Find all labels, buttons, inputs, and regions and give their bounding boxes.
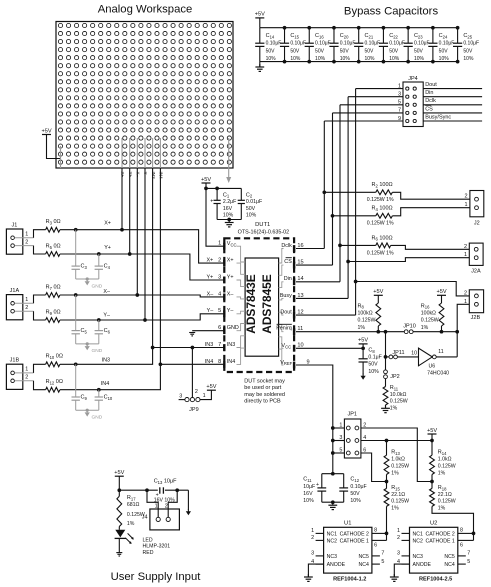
svg-text:8: 8: [374, 528, 377, 534]
svg-text:22.1Ω: 22.1Ω: [391, 492, 405, 498]
wire Y- net to DUT pin 5: [60, 314, 224, 322]
svg-text:0.125W 1%: 0.125W 1%: [367, 250, 394, 256]
svg-text:R14: R14: [438, 450, 447, 456]
IC U1 REF1004-1.2: [304, 520, 387, 582]
capacitor C22 0.10uF bypass: [379, 26, 405, 64]
wire JP4 pin3 to net bus: [348, 96, 403, 98]
svg-text:VREF: VREF: [280, 360, 292, 366]
LED HLMP-3201: [115, 530, 171, 556]
gray workspace columns for analog signals: [122, 138, 160, 168]
svg-text:Y+: Y+: [104, 245, 111, 251]
node IN4 label: [101, 381, 109, 387]
wire IN3 net to DUT pin 7: [60, 346, 224, 367]
wire Y- column drop: [144, 168, 146, 320]
svg-text:R12 0Ω: R12 0Ω: [46, 379, 63, 385]
svg-text:R10 0Ω: R10 0Ω: [46, 354, 63, 360]
svg-text:R4 100Ω: R4 100Ω: [372, 206, 393, 212]
svg-text:6: 6: [374, 543, 377, 549]
wire JP9 pin 1 to +5V: [200, 390, 211, 399]
svg-text:11: 11: [297, 326, 303, 332]
svg-text:C23: C23: [414, 33, 423, 39]
svg-text:1: 1: [25, 232, 28, 238]
svg-text:10: 10: [297, 343, 303, 349]
svg-text:J2: J2: [474, 221, 480, 227]
svg-text:1: 1: [464, 202, 467, 208]
wire JP4 pin5 to net bus: [340, 104, 403, 106]
svg-text:R11: R11: [390, 385, 399, 391]
svg-text:CATHODE 2: CATHODE 2: [340, 532, 369, 538]
resistor R14 1.0k: [430, 441, 456, 484]
wire IN3 column drop: [152, 168, 154, 348]
svg-text:50V: 50V: [315, 49, 325, 55]
svg-text:X–: X–: [136, 172, 141, 178]
capacitor C3 and C4 with ground: [72, 230, 111, 290]
svg-text:0.125W: 0.125W: [421, 318, 439, 324]
svg-text:C10: C10: [104, 395, 113, 401]
svg-text:Y+: Y+: [128, 172, 133, 178]
op-amp U6 inverter 74HC04: [411, 348, 449, 376]
svg-text:10%: 10%: [246, 213, 257, 219]
wire Dout branch to J2B pin 2: [356, 282, 470, 296]
svg-text:Bypass Capacitors: Bypass Capacitors: [344, 5, 439, 17]
svg-text:16V: 16V: [303, 491, 313, 497]
IC U2 REF1004-2.5: [390, 520, 474, 582]
svg-text:0.10μF: 0.10μF: [266, 41, 282, 47]
wire inverter output: [436, 356, 457, 358]
wire IN4 net to DUT pin 8: [60, 362, 224, 391]
svg-text:C22: C22: [389, 33, 398, 39]
+5V supply bypass rail: [255, 12, 265, 28]
svg-text:IN3: IN3: [151, 172, 156, 180]
svg-text:+: +: [210, 198, 213, 204]
svg-text:16: 16: [297, 243, 303, 249]
svg-text:50V: 50V: [266, 49, 276, 55]
svg-text:15: 15: [297, 260, 303, 266]
svg-text:14: 14: [297, 276, 303, 282]
connector J2: [464, 191, 483, 227]
svg-text:IN3: IN3: [227, 342, 235, 348]
svg-text:R7 0Ω: R7 0Ω: [46, 284, 61, 290]
svg-text:0.10μF: 0.10μF: [350, 484, 366, 490]
svg-text:2: 2: [25, 239, 28, 245]
wire IN3 to JP9 pin 2: [191, 348, 193, 398]
svg-text:R13: R13: [391, 450, 400, 456]
+5V user supply: [114, 470, 124, 490]
wire JP1 pin 6 to R13 R15 junction: [361, 453, 387, 482]
svg-text:0.01μF: 0.01μF: [246, 199, 262, 205]
svg-text:U2: U2: [430, 520, 437, 526]
wire Dout vertical bus to DUT pin 12: [296, 89, 357, 316]
jumper JP10: [403, 323, 416, 333]
svg-text:0.10μF: 0.10μF: [414, 41, 430, 47]
svg-text:CS: CS: [425, 106, 433, 112]
node X+ label: [104, 221, 111, 227]
svg-text:CATHODE 2: CATHODE 2: [425, 532, 454, 538]
svg-text:Y–: Y–: [143, 172, 148, 178]
wire Dclk vertical bus to DUT pin 16: [296, 121, 326, 249]
+5V at JP9: [206, 384, 216, 390]
jumper JP11: [389, 350, 405, 359]
capacitor C12 0.10uF: [339, 474, 366, 505]
ground R11: [381, 405, 390, 412]
wire Vref to C11 C12 rail: [322, 472, 344, 476]
resistor R2 100 ohm: [324, 182, 394, 203]
svg-text:R17: R17: [127, 495, 136, 501]
svg-text:0.125W: 0.125W: [438, 463, 456, 469]
connector JP4 pin contacts: [406, 87, 417, 123]
wire R2 to J2 pin 2: [392, 192, 470, 199]
svg-text:be used or part: be used or part: [244, 385, 281, 391]
svg-text:Y–: Y–: [103, 312, 110, 318]
capacitor C21 0.10uF bypass: [354, 26, 380, 64]
wire LED cathode to ground: [118, 538, 120, 552]
connector J2B: [464, 290, 484, 321]
svg-text:0.125W: 0.125W: [390, 399, 408, 405]
ground LED: [116, 553, 122, 556]
svg-text:R3 0Ω: R3 0Ω: [46, 219, 61, 225]
svg-text:8: 8: [460, 528, 463, 534]
svg-text:NC2: NC2: [327, 539, 337, 545]
wire JP1 pin 2 to R14 R18 junction: [361, 428, 432, 482]
wire Busy vertical bus to DUT pin 13: [296, 97, 350, 299]
DUT left pin numbers and names: [205, 241, 239, 365]
svg-text:R15: R15: [391, 485, 400, 491]
svg-text:1%: 1%: [127, 521, 135, 527]
svg-text:0.125W: 0.125W: [391, 463, 409, 469]
svg-text:1%: 1%: [390, 405, 398, 411]
wire JP4 pin1 to net bus: [356, 88, 403, 90]
+5V supply to workspace: [41, 128, 60, 168]
resistor R8 100k pullup: [358, 289, 384, 332]
jumper JP9: [179, 389, 206, 413]
node X- label: [103, 289, 110, 295]
svg-text:0.10μF: 0.10μF: [315, 41, 331, 47]
svg-text:1: 1: [464, 252, 467, 258]
resistor R10 0 ohm: [46, 354, 63, 367]
wire X- net to DUT pin 4: [60, 293, 224, 297]
wire C13 right to ground arrow: [165, 488, 189, 509]
ground bypass rail: [255, 62, 264, 72]
wire X- column drop: [136, 168, 138, 295]
title User Supply Input: [111, 571, 202, 583]
wire Y+ net to DUT pin 3: [60, 252, 224, 280]
svg-text:+5V: +5V: [373, 289, 383, 295]
svg-text:C3: C3: [81, 264, 88, 270]
analog workspace prototyping area border: [56, 22, 233, 169]
svg-text:Busy/Sync: Busy/Sync: [425, 114, 451, 120]
svg-text:0.10μF: 0.10μF: [365, 41, 381, 47]
connector JP1 outline: [344, 412, 361, 458]
wire X+ column drop: [121, 168, 123, 230]
svg-text:Dclk: Dclk: [425, 98, 436, 104]
svg-text:3: 3: [397, 551, 400, 557]
ground DUT pin 6: [189, 333, 195, 336]
svg-text:22.1Ω: 22.1Ω: [438, 492, 452, 498]
svg-text:0.125W: 0.125W: [391, 499, 409, 505]
resistor R5 0 ohm: [46, 243, 61, 256]
resistor R9 0 ohm: [46, 309, 61, 322]
svg-text:may be soldered: may be soldered: [244, 392, 285, 398]
svg-text:C8: C8: [368, 347, 375, 353]
svg-text:2: 2: [397, 535, 400, 541]
ground C1 C2: [217, 218, 241, 227]
svg-text:+5V: +5V: [114, 470, 124, 476]
wire JP4 pin7 to net bus: [333, 112, 404, 114]
svg-text:12: 12: [297, 310, 303, 316]
svg-text:74HC040: 74HC040: [427, 370, 449, 376]
svg-text:LED: LED: [143, 538, 153, 544]
resistor R12 0 ohm: [46, 379, 63, 392]
svg-text:J1: J1: [11, 222, 17, 228]
capacitor C14 0.10uF bypass: [255, 28, 281, 62]
svg-text:C1: C1: [223, 192, 230, 198]
svg-text:JP2: JP2: [390, 374, 399, 380]
svg-text:1%: 1%: [391, 506, 399, 512]
ground C8 arrow: [361, 374, 366, 380]
svg-text:3: 3: [311, 551, 314, 557]
svg-text:C4: C4: [104, 264, 111, 270]
JP4 output wires with net labels Dout Din Dclk CS Busy/Sync: [423, 82, 482, 121]
svg-text:Din: Din: [284, 276, 292, 282]
ground C11 C12: [322, 500, 344, 509]
svg-text:IN3: IN3: [102, 357, 110, 363]
svg-text:X+: X+: [227, 258, 234, 264]
svg-text:10μF: 10μF: [303, 484, 315, 490]
resistor R17 681 ohm: [117, 490, 145, 530]
connector J2A: [464, 243, 483, 274]
svg-text:X–: X–: [227, 291, 234, 297]
svg-text:7: 7: [381, 551, 384, 557]
svg-text:50V: 50V: [340, 49, 350, 55]
DUT socket pin tick marks: [223, 243, 295, 369]
gray socket-to-IC connection lines: [237, 246, 284, 365]
capacitor C2 0.01uF: [238, 188, 262, 219]
svg-text:1: 1: [155, 504, 158, 510]
svg-text:C24: C24: [439, 33, 448, 39]
svg-text:2: 2: [165, 504, 168, 510]
svg-text:R9 0Ω: R9 0Ω: [46, 309, 61, 315]
node Y- label: [103, 312, 110, 318]
svg-text:5: 5: [381, 559, 384, 565]
wire J4 pin 1: [147, 490, 158, 517]
svg-text:10%: 10%: [389, 56, 400, 62]
svg-text:X–: X–: [103, 289, 110, 295]
svg-text:Busy: Busy: [280, 293, 292, 299]
svg-text:J4: J4: [142, 515, 148, 521]
svg-text:C5: C5: [81, 328, 88, 334]
svg-text:Penirq: Penirq: [276, 326, 292, 332]
svg-text:J2B: J2B: [471, 315, 481, 321]
svg-text:1%: 1%: [438, 470, 446, 476]
svg-text:GND: GND: [92, 415, 103, 421]
resistor R11 10.0k pulldown: [383, 379, 408, 412]
svg-text:2.2μF: 2.2μF: [223, 199, 236, 205]
svg-text:0.10μF: 0.10μF: [340, 41, 356, 47]
svg-text:GND: GND: [92, 283, 103, 289]
svg-text:DUT1: DUT1: [255, 222, 270, 228]
ground user supply arrow: [186, 509, 191, 515]
svg-text:1: 1: [25, 367, 28, 373]
svg-text:Y–: Y–: [227, 308, 234, 314]
capacitor C20 0.10uF bypass: [329, 26, 355, 64]
svg-text:13: 13: [297, 293, 303, 299]
svg-text:J2A: J2A: [471, 268, 481, 274]
svg-text:2: 2: [25, 305, 28, 311]
capacitor C8 0.1uF: [359, 347, 382, 374]
svg-text:1%: 1%: [391, 470, 399, 476]
svg-text:1%: 1%: [421, 325, 429, 331]
svg-text:C14: C14: [266, 33, 275, 39]
svg-text:JP1: JP1: [347, 412, 356, 418]
svg-text:10%: 10%: [368, 369, 379, 375]
svg-text:0.10μF: 0.10μF: [463, 41, 479, 47]
svg-text:2: 2: [311, 535, 314, 541]
svg-text:C9: C9: [81, 395, 88, 401]
svg-text:10%: 10%: [315, 56, 326, 62]
svg-text:11: 11: [438, 349, 443, 355]
svg-text:50V: 50V: [389, 49, 399, 55]
svg-text:681Ω: 681Ω: [127, 502, 140, 508]
svg-text:U1: U1: [344, 520, 351, 526]
DUT right pin numbers and names: [276, 243, 309, 366]
svg-text:NC4: NC4: [444, 562, 454, 568]
wire CS vertical bus to DUT pin 15: [296, 113, 334, 265]
svg-text:2: 2: [464, 194, 467, 200]
resistor R16 100k pullup: [421, 289, 447, 332]
svg-text:REF1004-1.2: REF1004-1.2: [333, 577, 366, 583]
wire +5V gray column to DUT supply arrow: [226, 138, 231, 183]
capacitor C5 and C6 with ground: [72, 295, 111, 354]
svg-text:NC4: NC4: [359, 562, 369, 568]
svg-text:R5 0Ω: R5 0Ω: [46, 243, 61, 249]
bypass bottom rail wire: [260, 61, 458, 63]
svg-text:R8: R8: [358, 303, 365, 309]
wire JP4 pin9 to net bus: [324, 120, 403, 122]
wire Y+ column drop: [129, 168, 131, 254]
svg-text:0.125W: 0.125W: [358, 318, 376, 324]
svg-text:NC1: NC1: [327, 532, 337, 538]
svg-text:50V: 50V: [414, 49, 424, 55]
title Bypass Capacitors: [344, 5, 439, 17]
capacitor C13 10uF series: [154, 479, 177, 504]
svg-text:C25: C25: [463, 33, 472, 39]
svg-text:C11: C11: [303, 477, 312, 483]
wire J2B pin 1 to inverter output: [455, 304, 469, 357]
svg-text:CATHODE 1: CATHODE 1: [425, 539, 454, 545]
svg-text:50V: 50V: [365, 49, 375, 55]
svg-text:10%: 10%: [439, 56, 450, 62]
svg-text:50V: 50V: [246, 206, 256, 212]
capacitor C11 10uF: [303, 474, 326, 505]
svg-text:IN4: IN4: [101, 381, 109, 387]
svg-text:7: 7: [467, 551, 470, 557]
svg-text:+5V: +5V: [255, 12, 265, 18]
svg-text:2: 2: [25, 375, 28, 381]
svg-text:2: 2: [464, 290, 467, 296]
resistor R7 0 ohm: [46, 284, 61, 297]
resistor R4 100 ohm: [333, 206, 395, 227]
svg-text:U6: U6: [429, 364, 436, 370]
svg-text:Dclk: Dclk: [281, 243, 292, 249]
svg-text:6: 6: [460, 543, 463, 549]
svg-text:1: 1: [203, 393, 206, 399]
svg-text:+5V: +5V: [436, 289, 446, 295]
capacitor C23 0.10uF bypass: [404, 26, 430, 64]
IC body ADS7843E ADS7845E: [244, 258, 278, 356]
svg-text:RED: RED: [143, 550, 154, 556]
resistor R3 0 ohm: [46, 219, 61, 232]
prototyping grid holes: [58, 23, 231, 164]
svg-text:J1A: J1A: [10, 288, 20, 294]
svg-text:Dout: Dout: [425, 82, 437, 88]
svg-text:1%: 1%: [358, 325, 366, 331]
+5V supply DUT: [201, 177, 211, 189]
wire PENIRQ DUT pin 11 to JP10: [296, 330, 404, 334]
rotated net labels X+ Y+ X- Y- IN3 IN4 under workspace: [120, 172, 163, 180]
svg-text:10%: 10%: [340, 56, 351, 62]
svg-text:C2: C2: [246, 192, 253, 198]
svg-text:Analog Workspace: Analog Workspace: [98, 4, 193, 16]
capacitor C1 2.2uF: [210, 188, 236, 219]
svg-text:VCC: VCC: [281, 343, 291, 349]
DUT socket dashed outline: [224, 238, 294, 372]
svg-text:0.10μF: 0.10μF: [389, 41, 405, 47]
svg-text:100kΩ: 100kΩ: [421, 311, 436, 317]
wire +5V rail to C1 C2: [204, 187, 241, 191]
svg-text:+5V: +5V: [201, 177, 211, 183]
svg-text:10%: 10%: [223, 213, 234, 219]
svg-text:C13 10μF: C13 10μF: [154, 479, 177, 485]
svg-text:User Supply Input: User Supply Input: [111, 571, 202, 583]
svg-text:50V: 50V: [463, 49, 473, 55]
node Y+ label: [104, 245, 111, 251]
svg-text:5: 5: [467, 559, 470, 565]
svg-text:NC3: NC3: [413, 554, 423, 560]
wire DUT pin 6 GND stub: [192, 330, 224, 332]
svg-text:16V: 16V: [223, 206, 233, 212]
wire JP11 to inverter input: [398, 356, 419, 358]
svg-text:2: 2: [195, 389, 198, 395]
resistor R18 22.1 ohm: [430, 482, 476, 536]
resistor R15 22.1 ohm: [384, 482, 409, 536]
svg-text:+5V: +5V: [358, 338, 368, 344]
capacitor C9 and C10 with ground: [72, 364, 113, 420]
svg-text:0.125W 1%: 0.125W 1%: [367, 197, 394, 203]
+5V at DUT Vcc pin 10: [358, 338, 368, 349]
svg-text:HLMP-3201: HLMP-3201: [143, 544, 171, 550]
DUT socket part number: [238, 229, 290, 235]
svg-text:X+: X+: [120, 172, 125, 178]
svg-text:1: 1: [464, 299, 467, 305]
svg-text:1.0kΩ: 1.0kΩ: [391, 457, 405, 463]
svg-text:10%: 10%: [266, 56, 277, 62]
svg-text:50V: 50V: [350, 491, 360, 497]
wire PENIRQ to JP11: [384, 332, 389, 359]
svg-text:0.10μF: 0.10μF: [290, 41, 306, 47]
svg-text:NC2: NC2: [413, 539, 423, 545]
svg-text:3: 3: [179, 393, 182, 399]
svg-text:+5V: +5V: [41, 128, 51, 134]
svg-text:CS: CS: [284, 259, 292, 265]
svg-text:OTS-16(24)-0.635-02: OTS-16(24)-0.635-02: [238, 229, 290, 235]
capacitor C24 0.10uF bypass: [428, 26, 454, 64]
svg-text:10: 10: [411, 350, 417, 356]
capacitor C15 0.10uF bypass: [280, 26, 306, 64]
svg-text:C6: C6: [104, 328, 111, 334]
bypass top rail wire: [260, 27, 458, 29]
svg-text:ANODE: ANODE: [413, 562, 432, 568]
svg-text:10%: 10%: [290, 56, 301, 62]
